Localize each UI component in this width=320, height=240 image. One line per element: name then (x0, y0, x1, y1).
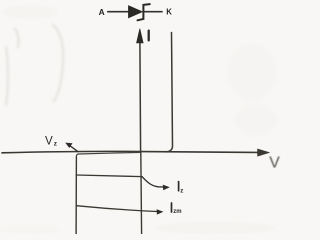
axis label I (148, 31, 150, 41)
ghost show-through arc at left (6, 24, 63, 106)
zener diode D1: cathode bar with bent ticks (138, 4, 150, 20)
svg-text:K: K (166, 8, 172, 17)
svg-text:V: V (269, 155, 280, 172)
svg-text:z: z (180, 187, 183, 194)
wire: cathode lead (144, 11, 162, 13)
label Iz (179, 182, 184, 195)
svg-text:V: V (45, 134, 53, 147)
axis V (horizontal) (2, 151, 258, 152)
curve: zener breakdown vertical branch (75, 157, 77, 234)
axis I (vertical) (139, 41, 142, 152)
leader arrow to Iz label (142, 177, 170, 191)
svg-text:A: A (99, 7, 105, 17)
label Izm (172, 203, 182, 215)
line: Izm maximum current level (76, 206, 157, 212)
svg-text:z: z (54, 140, 57, 147)
arrowhead to Izm label (157, 209, 164, 214)
line: Iz current level (76, 175, 142, 177)
leader arrow to Vz knee (65, 143, 78, 152)
axis V arrowhead (258, 149, 270, 156)
axis I arrowhead (137, 29, 144, 43)
curve: reverse leakage into zener knee (76, 152, 140, 156)
svg-text:zm: zm (173, 209, 181, 215)
zener diode D1: triangle (129, 6, 142, 18)
node: V axis continuation below origin (140, 153, 143, 235)
wire: anode lead (108, 11, 129, 13)
curve: forward conduction branch (166, 33, 173, 152)
